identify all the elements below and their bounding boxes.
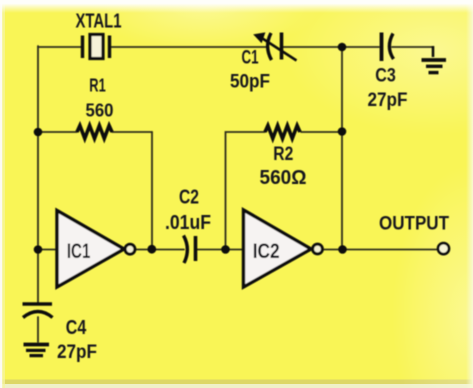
resistor R1 <box>77 126 112 139</box>
capacitor C2 <box>184 236 196 264</box>
svg-text:OUTPUT: OUTPUT <box>379 214 449 235</box>
wire: top rail left segment <box>38 46 81 48</box>
wire: left vertical rail <box>37 46 39 303</box>
svg-text:560Ω: 560Ω <box>260 167 307 189</box>
crystal XTAL1 <box>83 35 110 59</box>
wire: R2 right segment <box>301 131 342 133</box>
svg-text:560: 560 <box>86 100 114 121</box>
op-amp/inverter IC2 <box>244 210 323 287</box>
resistor R2 <box>265 126 300 139</box>
node: R2 right junction <box>338 127 347 136</box>
wire: top rail C3 to ground <box>392 46 433 48</box>
wire: C4 to ground <box>37 317 39 342</box>
svg-text:C2: C2 <box>179 187 199 209</box>
svg-text:C4: C4 <box>66 317 87 339</box>
capacitor C1 (variable) <box>253 32 296 60</box>
wire: top rail C1 to C3 <box>283 46 379 48</box>
svg-text:R2: R2 <box>273 144 293 165</box>
node: IC1 output junction <box>147 245 156 254</box>
capacitor C3 <box>382 33 394 62</box>
wire: C2 to IC2 input <box>197 249 244 251</box>
svg-text:R1: R1 <box>89 75 106 96</box>
node: IC1 input junction <box>34 245 43 254</box>
svg-text:IC2: IC2 <box>253 239 280 263</box>
node: top rail junction <box>338 43 347 52</box>
svg-text:27pF: 27pF <box>57 341 97 363</box>
wire: IC2 output to terminal <box>324 249 437 251</box>
svg-text:50pF: 50pF <box>230 71 270 93</box>
node: C2/IC2 input junction <box>221 245 230 254</box>
svg-text:27pF: 27pF <box>368 89 408 111</box>
output terminal <box>438 243 449 254</box>
svg-text:XTAL1: XTAL1 <box>76 10 122 33</box>
node: IC2 output junction <box>338 245 347 254</box>
svg-text:IC1: IC1 <box>67 239 91 263</box>
wire: vertical top node through R2 to IC2 output <box>341 47 343 250</box>
svg-text:C3: C3 <box>375 65 396 87</box>
svg-text:.01uF: .01uF <box>165 212 211 234</box>
ground (top right) <box>422 46 447 73</box>
wire: vertical C2 node to R2 <box>226 132 266 250</box>
wire: IC1 input stub <box>38 249 56 251</box>
node: R1 left junction <box>34 128 43 137</box>
capacitor C4 <box>23 304 53 318</box>
wire: top rail crystal to C1 <box>111 46 266 48</box>
wire: IC1 output to C2 <box>136 249 185 251</box>
op-amp/inverter IC1 <box>57 211 135 288</box>
wire: feedback vertical R1 to IC1 output <box>151 132 153 250</box>
wire: R1 row <box>38 131 152 133</box>
ground (bottom left) <box>24 345 50 356</box>
svg-text:C1: C1 <box>242 48 259 69</box>
